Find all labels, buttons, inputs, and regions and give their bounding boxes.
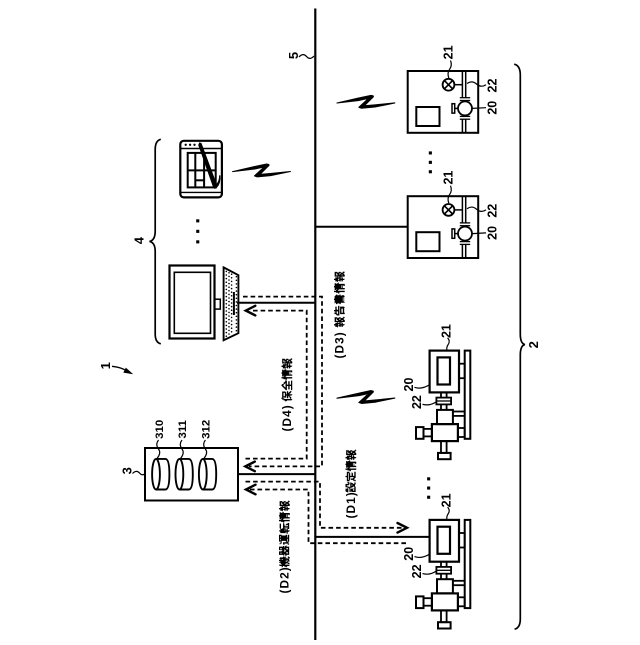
svg-text:20: 20 — [402, 378, 416, 392]
svg-text:(D3): (D3) — [333, 331, 347, 358]
reference numeral 22 (lower box pipe) with leader — [467, 204, 500, 218]
data flow D4 maintenance info: database to laptop — [246, 306, 307, 459]
reference numeral 21 (lower box sensor) with leader — [442, 171, 456, 204]
svg-text:2: 2 — [526, 341, 541, 348]
wire from network line to lower device box — [315, 226, 407, 228]
svg-text:20: 20 — [486, 226, 500, 240]
reference numeral 20 (upper valve) with leader — [402, 378, 430, 392]
brace 4 (operation terminal group bracket) — [150, 139, 161, 343]
data flow D1 setting info: database to control valve — [246, 482, 408, 533]
svg-text:(D1): (D1) — [344, 491, 358, 518]
reference numeral 3 with leader — [119, 467, 144, 475]
label (D3) report document information — [333, 271, 347, 358]
svg-text:311: 311 — [177, 419, 189, 438]
wireless zigzag (smartphone to network) — [233, 164, 291, 177]
label (D4) maintenance information — [280, 358, 294, 431]
reference numeral 22 (upper box pipe) with leader — [467, 79, 500, 93]
svg-text:310: 310 — [154, 420, 166, 439]
ellipsis dots (control valves) — [427, 477, 430, 499]
svg-text:(D4): (D4) — [280, 404, 294, 431]
reference numeral 4 — [131, 236, 146, 244]
svg-text:21: 21 — [440, 324, 454, 338]
svg-text:21: 21 — [442, 45, 456, 59]
svg-text:22: 22 — [486, 79, 500, 93]
svg-text:22: 22 — [410, 395, 424, 409]
svg-text:5: 5 — [286, 52, 301, 59]
database cylinder 311 — [176, 459, 193, 490]
wireless zigzag (network to upper control valve) — [337, 391, 395, 404]
svg-text:4: 4 — [131, 236, 146, 244]
wire network line to lower control valve — [315, 536, 429, 538]
reference numeral 21 (upper box sensor) with leader — [442, 45, 456, 78]
label (D1) setting information — [344, 450, 358, 519]
svg-text:21: 21 — [442, 171, 456, 185]
data flow D2 device operation info: control valve to database — [246, 485, 406, 544]
reference numeral 22 (lower valve connector) with leader — [410, 564, 437, 578]
reference numeral 20 (upper box valve) with leader — [473, 101, 500, 115]
svg-text:22: 22 — [410, 564, 424, 578]
svg-text:312: 312 — [201, 420, 213, 439]
network line 5 (plant communication bus) — [314, 9, 316, 641]
reference numeral 310 with leader — [154, 420, 166, 459]
reference numeral 1 with curved arrow — [98, 362, 133, 374]
reference numeral 2 — [526, 341, 541, 348]
control valve assembly (upper, wireless) — [416, 351, 470, 460]
reference numeral 21 (lower valve positioner) with leader — [440, 493, 454, 519]
database server box 3 — [145, 448, 238, 501]
control valve assembly (lower, wired) — [416, 520, 470, 629]
database cylinder 312 — [199, 459, 216, 490]
reference numeral 311 with leader — [177, 419, 189, 458]
brace 2 (field device group bracket) — [514, 64, 525, 629]
svg-text:3: 3 — [119, 467, 134, 474]
svg-text:20: 20 — [402, 547, 416, 561]
laptop keyboard — [224, 267, 239, 340]
wireless zigzag (network to upper device box) — [337, 95, 395, 108]
reference numeral 312 with leader — [201, 420, 213, 459]
svg-text:20: 20 — [486, 101, 500, 115]
field device box (lower, wired) — [408, 196, 479, 258]
reference numeral 22 (upper valve connector) with leader — [410, 395, 437, 409]
label (D2) device operation information — [278, 501, 292, 594]
svg-text:21: 21 — [440, 493, 454, 507]
wire database to network line — [238, 473, 315, 475]
reference numeral 20 (lower box valve) with leader — [473, 226, 500, 240]
reference numeral 20 (lower valve) with leader — [402, 547, 430, 561]
wire laptop to network line — [237, 302, 315, 304]
svg-text:(D2): (D2) — [278, 566, 292, 593]
reference numeral 21 (upper valve positioner) with leader — [440, 324, 454, 350]
ellipsis dots (device boxes) — [429, 151, 432, 173]
database cylinder 310 — [152, 459, 169, 490]
smartphone operation terminal 40 — [180, 141, 222, 198]
reference numeral 5 with leader — [286, 52, 314, 59]
laptop operation terminal 41: monitor — [170, 266, 221, 339]
field device box (upper, wireless) — [408, 71, 479, 133]
data flow D3 report info: laptop to database — [243, 297, 322, 472]
ellipsis dots (terminals) — [196, 219, 199, 243]
svg-text:1: 1 — [98, 362, 113, 369]
svg-text:22: 22 — [486, 204, 500, 218]
